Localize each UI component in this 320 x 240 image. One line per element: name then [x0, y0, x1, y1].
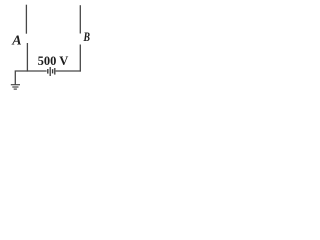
battery BT1 plate 2 (long) — [49, 67, 51, 76]
battery BT1 plate 4 (long) — [54, 68, 56, 75]
ground bar 1 — [11, 84, 20, 86]
ground bar 2 — [12, 86, 18, 88]
battery BT1 plate 3 (short) — [52, 69, 54, 73]
wire: bottom right (battery to B) — [56, 70, 81, 72]
wire: bottom left (ground branch to battery) — [15, 71, 46, 85]
conductor B lower segment — [79, 45, 81, 72]
conductor A upper segment — [25, 5, 27, 34]
conductor B upper segment — [79, 5, 81, 33]
svg-text:A: A — [11, 34, 21, 49]
conductor A lower segment — [26, 43, 28, 72]
svg-text:500 V: 500 V — [38, 54, 69, 68]
ground bar 3 — [14, 88, 17, 90]
svg-text:B: B — [83, 30, 91, 44]
battery BT1 plate 1 (short) — [47, 69, 49, 74]
